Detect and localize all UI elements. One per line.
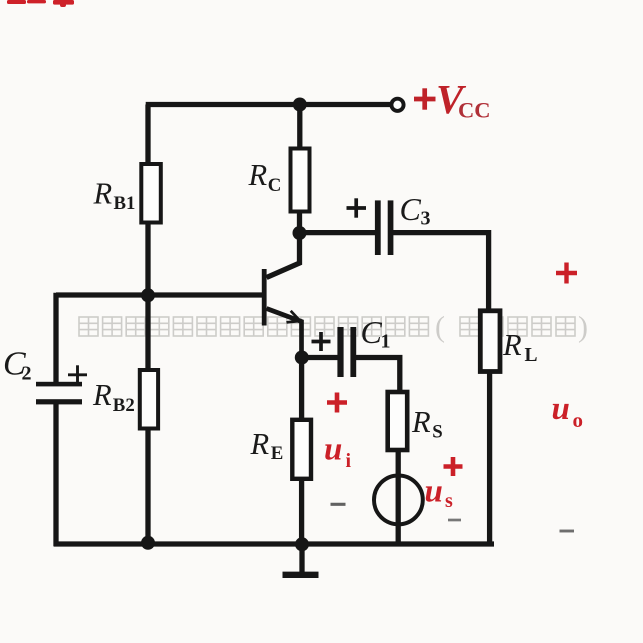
wire R_L to bottom rail: [487, 371, 492, 545]
wire top rail: [146, 102, 390, 107]
plus sign C3: [347, 198, 367, 217]
plus sign C2: [68, 365, 87, 384]
emitter arrow: [287, 311, 301, 323]
svg-text:R: R: [93, 177, 113, 211]
svg-text:s: s: [445, 490, 453, 512]
svg-text:3: 3: [421, 208, 431, 230]
wire C3 to R_L branch: [393, 233, 489, 312]
node dot base: [141, 288, 155, 302]
minus sign ui: [331, 503, 346, 506]
resistor RE: [292, 420, 311, 479]
svg-text:u: u: [552, 391, 570, 427]
svg-text:C: C: [400, 191, 422, 227]
svg-text:1: 1: [381, 331, 391, 353]
svg-text:R: R: [411, 405, 431, 439]
resistor RB2: [140, 370, 158, 429]
node dot collector: [293, 226, 307, 240]
node dot emitter: [295, 351, 309, 365]
wire ground stub: [299, 544, 304, 572]
wire left branch upper: [53, 293, 58, 384]
wire R_E to bottom rail: [299, 478, 304, 544]
resistor RC: [291, 149, 310, 212]
wire emitter node to R_E: [299, 358, 304, 422]
transistor Q1: [262, 269, 300, 326]
wire left branch lower: [53, 403, 58, 546]
svg-text:R: R: [502, 328, 522, 362]
wire R_B2 to bottom rail: [145, 427, 150, 544]
node dot ground: [295, 537, 309, 551]
wire us source to bottom rail: [396, 476, 401, 544]
VCC terminal: [391, 99, 403, 111]
wire emitter lead: [267, 309, 302, 359]
node dot top of RC: [293, 98, 307, 112]
svg-text:C: C: [361, 314, 383, 350]
plus sign output top: [556, 263, 577, 284]
svg-text:CC: CC: [458, 98, 491, 123]
resistor RS: [388, 392, 408, 450]
svg-text:S: S: [432, 421, 442, 442]
plus sign ui: [327, 393, 347, 413]
source us circle: [374, 476, 423, 525]
minus sign us: [448, 519, 461, 522]
plus sign C1: [312, 332, 331, 351]
wire Rs to us source: [396, 449, 401, 476]
svg-text:R: R: [92, 378, 112, 412]
svg-text:): ): [578, 311, 588, 344]
watermark row: [79, 311, 588, 344]
svg-text:i: i: [346, 450, 352, 472]
wire C1 to Rs branch: [356, 358, 400, 394]
svg-text:o: o: [573, 408, 584, 432]
svg-text:(: (: [435, 311, 445, 344]
svg-text:L: L: [525, 345, 538, 366]
wire top rail to RC: [297, 105, 302, 152]
wire emitter node to C1: [302, 355, 339, 360]
ground bar: [283, 572, 319, 578]
svg-text:R: R: [248, 158, 268, 192]
minus sign output bottom: [560, 530, 575, 533]
label +VCC: [414, 76, 491, 123]
svg-text:B2: B2: [113, 395, 135, 416]
svg-text:C: C: [268, 175, 282, 196]
wire base rail: [56, 292, 263, 297]
base bar: [262, 269, 267, 326]
svg-text:u: u: [324, 432, 342, 468]
wire bottom rail: [54, 541, 494, 546]
capacitor C3 plates: [375, 200, 394, 255]
wire collector node to C3: [300, 230, 377, 235]
wire left rail upper: [145, 105, 150, 167]
svg-text:R: R: [250, 427, 270, 461]
svg-text:E: E: [271, 443, 284, 464]
plus sign us: [444, 457, 463, 476]
node dot bottom RB2: [141, 536, 155, 550]
svg-text:u: u: [425, 474, 443, 510]
capacitor C2 plates: [36, 382, 82, 405]
capacitor C1 plates: [337, 327, 356, 377]
wire collector lead: [267, 233, 300, 278]
resistor RL: [480, 311, 500, 372]
wire base node to R_B2: [145, 295, 150, 372]
red cropped text top-left: [7, 0, 74, 7]
svg-text:2: 2: [22, 363, 32, 385]
resistor RB1: [141, 164, 161, 223]
svg-text:B1: B1: [114, 193, 136, 214]
wire R_B1 to base node: [145, 221, 150, 297]
wire RC to collector node: [297, 210, 302, 234]
